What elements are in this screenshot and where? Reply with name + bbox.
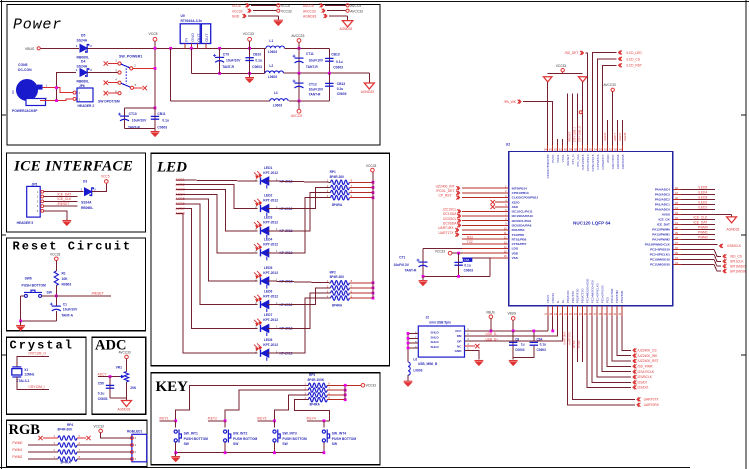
svg-text:CRY12M_I: CRY12M_I <box>572 127 576 142</box>
svg-text:C0603: C0603 <box>337 92 347 96</box>
MCU left pin numbers <box>504 185 507 259</box>
wire /KEY2 row <box>208 420 225 422</box>
svg-text:NUC120 LQFP 64: NUC120 LQFP 64 <box>573 221 611 226</box>
MCU left pin stubs <box>462 188 509 258</box>
svg-text:USB_MINI_B: USB_MINI_B <box>418 362 438 366</box>
svg-text:PC2•SPICLK1: PC2•SPICLK1 <box>650 253 670 257</box>
svg-text:ICE INTERFACE: ICE INTERFACE <box>13 159 133 175</box>
LED LED4 <box>261 249 269 261</box>
switch SW_INT4 <box>323 421 325 428</box>
svg-text:SW: SW <box>233 442 239 446</box>
wire top col5 <box>567 94 569 145</box>
svg-text:PUSH BOTTOM: PUSH BOTTOM <box>332 437 357 441</box>
svg-text:VDD1: VDD1 <box>556 154 560 163</box>
wire key bottom rail <box>176 452 324 454</box>
svg-text:PA14/PWM2: PA14/PWM2 <box>652 238 670 242</box>
svg-text:D4: D4 <box>81 59 85 63</box>
capacitor CT1 <box>422 249 424 277</box>
svg-text:TX2: TX2 <box>467 240 473 244</box>
svg-text:VCC33: VCC33 <box>435 249 446 253</box>
diode D3 <box>85 188 94 196</box>
svg-text:L0603: L0603 <box>413 369 422 373</box>
node stub circle <box>579 111 582 114</box>
MCU top pin stubs <box>548 145 623 152</box>
svg-text:CRY12M_O: CRY12M_O <box>28 351 46 355</box>
svg-text:ICE_DAT: ICE_DAT <box>58 192 72 196</box>
wire node UART0TX <box>572 317 635 400</box>
svg-text:ICE_DAT: ICE_DAT <box>657 223 670 227</box>
svg-text:LED2: LED2 <box>264 193 273 197</box>
svg-text:LED1: LED1 <box>264 166 273 170</box>
svg-text:10uF/10V: 10uF/10V <box>309 88 324 92</box>
svg-text:20K: 20K <box>130 386 137 390</box>
svg-text:AVCC5: AVCC5 <box>291 114 302 118</box>
svg-text:/KEY3: /KEY3 <box>257 417 267 421</box>
svg-text:0.1u: 0.1u <box>464 263 470 267</box>
ground ICE <box>62 221 71 226</box>
svg-text:ICE_CK: ICE_CK <box>659 218 671 222</box>
wire net /LED1 to LED1 <box>176 180 258 181</box>
svg-text:SW_INT4: SW_INT4 <box>332 432 346 436</box>
wire U9 GND drop <box>190 48 192 73</box>
wire LED4 anode to resistor pack <box>268 198 331 253</box>
svg-text:/RESET: /RESET <box>566 154 570 165</box>
svg-text:SW: SW <box>282 442 288 446</box>
svg-text:SW: SW <box>184 442 190 446</box>
svg-text:/KEY4: /KEY4 <box>306 417 316 421</box>
RGB section box <box>7 420 148 466</box>
svg-text:SW_INT3: SW_INT3 <box>282 432 296 436</box>
capacitor C63 <box>458 253 460 276</box>
wire PWM1 row <box>28 451 58 453</box>
wire JP5 pin1 to D3 <box>44 191 84 193</box>
svg-text:10uF/10V: 10uF/10V <box>309 58 324 62</box>
wire node I2S/LRCLK <box>602 317 631 372</box>
wire /RESET ICE <box>44 205 78 207</box>
svg-text:CTS1/PB7: CTS1/PB7 <box>512 242 527 246</box>
wire SW6 row <box>21 295 25 297</box>
svg-text:0.1u: 0.1u <box>255 59 262 63</box>
wire node PWM1 <box>681 233 715 235</box>
svg-text:/LED5: /LED5 <box>698 186 707 190</box>
svg-text:C63: C63 <box>464 258 470 262</box>
svg-text:PC1•SPICLK0: PC1•SPICLK0 <box>595 283 599 303</box>
wire RP3 row3 to key column <box>275 395 309 421</box>
wire reset bottom rail <box>21 296 57 321</box>
svg-text:SW_INT2: SW_INT2 <box>233 432 247 436</box>
wire node PWM0 <box>681 228 715 230</box>
svg-text:CT9: CT9 <box>223 53 229 57</box>
svg-text:PWM0: PWM0 <box>12 441 22 445</box>
svg-text:KPT-2012: KPT-2012 <box>263 171 278 175</box>
svg-text:/SD_PWR: /SD_PWR <box>638 365 654 369</box>
svg-text:TANT-R: TANT-R <box>405 268 417 272</box>
svg-text:CB10: CB10 <box>253 53 262 57</box>
svg-text:CPN0/PC7: CPN0/PC7 <box>601 154 605 169</box>
svg-text:ADC7: ADC7 <box>98 372 107 376</box>
capacitor C8 <box>512 331 514 360</box>
svg-text:C0603: C0603 <box>157 126 167 130</box>
wire LED5 anode to resistor pack <box>268 281 331 283</box>
svg-text:OUT: OUT <box>196 33 201 42</box>
svg-text:AVCC33: AVCC33 <box>350 9 363 13</box>
wire node /LCD_LED <box>593 53 617 146</box>
svg-text:PUSH BOTTOM: PUSH BOTTOM <box>233 437 258 441</box>
wire loop to bottom rail <box>170 48 172 101</box>
svg-text:VSS1: VSS1 <box>561 154 565 162</box>
svg-text:VCC33: VCC33 <box>366 164 377 168</box>
svg-text:CRY12M_O: CRY12M_O <box>577 125 581 142</box>
svg-text:10uF/10V: 10uF/10V <box>226 59 241 63</box>
svg-text:CPO1/PB13: CPO1/PB13 <box>512 191 529 195</box>
svg-text:CT1: CT1 <box>399 255 405 259</box>
svg-text:UART1TX: UART1TX <box>439 231 455 235</box>
ground C8 <box>509 361 518 366</box>
svg-text:AVCC33: AVCC33 <box>119 351 131 355</box>
svg-text:SW: SW <box>332 442 338 446</box>
svg-text:CTS0: CTS0 <box>577 340 581 348</box>
wire D3 to VCC5 <box>92 183 106 191</box>
wire USB DM <box>465 317 558 337</box>
svg-text:CLKO/CPO0/PB12: CLKO/CPO0/PB12 <box>512 196 539 200</box>
svg-text:PA4/ADC4: PA4/ADC4 <box>655 188 670 192</box>
svg-text:PB2/RTS0: PB2/RTS0 <box>576 288 580 303</box>
svg-text:STADC/TM0/PB8: STADC/TM0/PB8 <box>546 154 550 178</box>
capacitor CB10 <box>249 48 251 73</box>
svg-text:PC3•MOSI0•SDO: PC3•MOSI0•SDO <box>586 278 590 303</box>
svg-text:R0603: R0603 <box>62 282 72 286</box>
svg-text:AGND33: AGND33 <box>361 90 374 94</box>
svg-text:PWM1: PWM1 <box>12 448 22 452</box>
wire rail C <box>284 72 369 74</box>
wire net /LED2 to LED2 <box>176 185 258 209</box>
wire CT10 CB11 bottom <box>125 128 156 130</box>
AGND33 arrow adc <box>126 398 128 401</box>
wire CB15 bottom to junction <box>299 100 329 102</box>
svg-text:INT1/PB15: INT1/PB15 <box>581 154 585 169</box>
svg-text:SS24A: SS24A <box>81 200 92 204</box>
KEY section box <box>151 373 380 465</box>
wire LDO to CT1 <box>423 248 462 250</box>
svg-text:CPN1/PC15: CPN1/PC15 <box>591 154 595 171</box>
wire node ICE_CLK <box>681 218 715 220</box>
capacitor C64 <box>533 331 535 341</box>
svg-text:CON5: CON5 <box>18 63 28 67</box>
wire top col6 CRY12M_I <box>572 94 574 145</box>
power arrow left <box>543 77 552 82</box>
wire ICE_CLK <box>44 200 78 202</box>
svg-text:0.1u: 0.1u <box>337 87 344 91</box>
svg-text:VR1: VR1 <box>116 366 123 370</box>
wire bottom col8 stub <box>581 317 583 363</box>
svg-text:/LCD_CS: /LCD_CS <box>626 57 641 61</box>
svg-text:POWERJACK5P: POWERJACK5P <box>12 109 38 113</box>
wire and node /LED4 <box>681 193 715 195</box>
svg-text:SW6: SW6 <box>25 276 32 280</box>
svg-text:VBUS: VBUS <box>546 295 550 303</box>
svg-text:VCC33: VCC33 <box>94 424 105 428</box>
svg-text:/PA_WK: /PA_WK <box>504 100 517 104</box>
svg-text:SPI1CLK: SPI1CLK <box>730 260 744 264</box>
svg-text:PA0/ADC0: PA0/ADC0 <box>655 208 670 212</box>
wire node /SD_PWR <box>607 317 631 367</box>
svg-text:PC5: PC5 <box>605 297 609 303</box>
svg-text:SW_POWER1: SW_POWER1 <box>119 54 142 58</box>
svg-text:AVCC33: AVCC33 <box>303 9 316 13</box>
svg-text:PC3•SPISS10: PC3•SPISS10 <box>650 248 670 252</box>
svg-text:C0603: C0603 <box>252 65 262 69</box>
LED LED3 <box>261 227 269 239</box>
svg-text:AVSS: AVSS <box>662 213 670 217</box>
wire node /UZ2400_CS <box>622 317 631 351</box>
capacitor C50 <box>109 377 111 398</box>
bottom rail E <box>171 100 270 102</box>
svg-text:UART0RX: UART0RX <box>562 331 566 345</box>
svg-text:12MHz: 12MHz <box>24 372 35 376</box>
svg-text:8P4R-300: 8P4R-300 <box>330 275 345 279</box>
svg-text:8P4R-300: 8P4R-300 <box>330 175 345 179</box>
svg-text:RP3: RP3 <box>309 373 315 377</box>
svg-text:KPT-2012: KPT-2012 <box>263 343 278 347</box>
ground USB <box>475 361 484 366</box>
ground key <box>175 453 177 457</box>
wire LED6 anode to resistor pack <box>268 288 331 305</box>
wires RP2 to VCC rail <box>349 282 373 284</box>
node VCC33 key <box>361 384 365 388</box>
svg-text:/LED7: /LED7 <box>618 132 622 141</box>
svg-text:/UZ2400_CS: /UZ2400_CS <box>638 349 658 353</box>
svg-text:KPT-2012: KPT-2012 <box>263 198 278 202</box>
svg-text:LED7: LED7 <box>264 313 273 317</box>
svg-text:RP2: RP2 <box>330 270 336 274</box>
wire VCC33 rail led <box>372 172 374 298</box>
LED LED2 <box>261 205 269 217</box>
svg-text:SPI1MOSI: SPI1MOSI <box>730 269 746 273</box>
wire AVSS to AGND33 <box>681 213 732 215</box>
svg-text:GND: GND <box>232 15 240 19</box>
svg-text:/RESET: /RESET <box>567 131 571 142</box>
wire net /LED6 to LED6 <box>176 204 258 305</box>
svg-text:RGB: RGB <box>9 422 41 438</box>
wire node PWM2 <box>681 238 715 240</box>
svg-text:C1: C1 <box>63 303 67 307</box>
svg-text:I2C0SCL/PA9: I2C0SCL/PA9 <box>512 219 532 223</box>
svg-text:VCC5: VCC5 <box>149 32 158 36</box>
svg-text:PWM1: PWM1 <box>698 231 708 235</box>
wire RP3 row2 to key column <box>225 390 308 421</box>
svg-text:/LED1: /LED1 <box>698 206 707 210</box>
wire D4 anode loop <box>57 73 77 101</box>
svg-text:I2C0SCL: I2C0SCL <box>443 217 457 221</box>
svg-text:C0603: C0603 <box>515 348 525 352</box>
LED section box <box>151 153 390 365</box>
svg-text:U9: U9 <box>181 14 185 18</box>
svg-text:UART0RX: UART0RX <box>644 403 660 407</box>
MCU right pin names <box>645 188 671 267</box>
svg-text:8P4RA: 8P4RA <box>310 402 321 406</box>
wire RP3 row1 to key column <box>176 385 309 421</box>
wire node /UZ2400_RST <box>612 317 631 362</box>
svg-text:PB9/TM1: PB9/TM1 <box>620 290 624 303</box>
svg-text:SHLD: SHLD <box>431 335 440 339</box>
svg-text:TX1/PB5: TX1/PB5 <box>512 233 525 237</box>
svg-text:CPP0/PC6: CPP0/PC6 <box>596 154 600 169</box>
MCU bottom pin numbers <box>544 312 621 316</box>
ground reset <box>20 321 22 326</box>
svg-text:TANT-A: TANT-A <box>61 313 73 317</box>
svg-text:VCC33: VCC33 <box>50 253 61 257</box>
crystal X1 <box>12 367 22 377</box>
svg-text:D+: D+ <box>561 299 565 303</box>
wire and node /LED1 <box>681 208 715 210</box>
svg-text:/KEY2: /KEY2 <box>208 417 218 421</box>
svg-text:8P4R-300: 8P4R-300 <box>58 428 73 432</box>
wire top col7 CRY12M_O <box>577 94 579 145</box>
svg-text:LED4: LED4 <box>264 238 273 242</box>
ADC section box <box>92 337 146 414</box>
svg-text:0.1u: 0.1u <box>336 60 343 64</box>
svg-text:I2C1SCL: I2C1SCL <box>443 208 457 212</box>
svg-text:DM: DM <box>457 334 462 338</box>
svg-text:CP_RST: CP_RST <box>438 194 451 198</box>
svg-text:DC-CON: DC-CON <box>18 68 32 72</box>
svg-text:PB0/RX0: PB0/RX0 <box>566 290 570 303</box>
svg-text:KPT-2012: KPT-2012 <box>263 243 278 247</box>
svg-text:8P4R-100K: 8P4R-100K <box>308 378 325 382</box>
svg-text:SHLD: SHLD <box>431 345 440 349</box>
svg-text:0.1u: 0.1u <box>540 343 546 347</box>
svg-text:CRY12M_I: CRY12M_I <box>29 385 45 389</box>
svg-text:CB13: CB13 <box>337 82 346 86</box>
svg-text:10uF/10V: 10uF/10V <box>63 308 78 312</box>
switch SW_INT3 <box>274 421 276 428</box>
svg-text:VCC: VCC <box>455 329 462 333</box>
wire LED1 anode to resistor pack <box>268 181 331 182</box>
svg-text:XT1_Out: XT1_Out <box>576 154 580 167</box>
svg-text:RT9164A-3.3v: RT9164A-3.3v <box>181 19 203 23</box>
svg-text:/SD_DET: /SD_DET <box>565 51 579 55</box>
switch SW_INT1 <box>175 421 177 428</box>
wire VBUS rail <box>465 330 548 332</box>
svg-text:RX1/PB4: RX1/PB4 <box>512 228 525 232</box>
svg-text:LDO: LDO <box>512 247 519 251</box>
svg-text:L4: L4 <box>274 91 278 95</box>
svg-text:GND: GND <box>190 33 195 42</box>
svg-text:GND: GND <box>455 349 463 353</box>
svg-text:J2: J2 <box>426 315 430 319</box>
svg-text:I2S/DI: I2S/DI <box>638 381 647 385</box>
wire LED8 anode to resistor pack <box>268 298 331 353</box>
Reset Circuit section box <box>7 238 146 331</box>
svg-text:CT10: CT10 <box>129 112 137 116</box>
svg-text:PUSH BOTTOM: PUSH BOTTOM <box>184 437 209 441</box>
wire node I2S/DI <box>592 317 631 383</box>
svg-text:KPT-2012: KPT-2012 <box>263 294 278 298</box>
capacitor CB13 <box>328 48 330 73</box>
svg-text:UZ2400_INT: UZ2400_INT <box>436 184 455 188</box>
svg-text:ICE_DAT: ICE_DAT <box>694 221 708 225</box>
svg-text:PUSH BOTTOM: PUSH BOTTOM <box>22 284 47 288</box>
svg-text:ADC7/PA7: ADC7/PA7 <box>611 154 615 169</box>
wires RP4 to RGBLED1 <box>77 444 132 446</box>
svg-text:AGND33: AGND33 <box>303 15 316 19</box>
svg-text:AVCC5: AVCC5 <box>303 4 314 8</box>
wire top col1 <box>547 82 549 145</box>
wire VDD33 column <box>552 317 554 331</box>
svg-text:LED5: LED5 <box>264 266 273 270</box>
svg-text:PA13/PWM1: PA13/PWM1 <box>652 233 670 237</box>
MCU left pin names <box>512 186 539 260</box>
svg-text:U2: U2 <box>506 143 510 147</box>
svg-text:VBUS: VBUS <box>486 311 495 315</box>
diode D5 <box>80 45 89 53</box>
svg-text:UART0TX: UART0TX <box>567 332 571 345</box>
svg-text:XT1_In: XT1_In <box>571 154 575 164</box>
wire node I2SMCLK <box>681 243 718 245</box>
wire PWM2 row <box>28 458 58 460</box>
wire USB GND <box>465 351 479 360</box>
AGND33 arrow right <box>368 73 370 83</box>
Power section box <box>7 5 380 146</box>
wire net /LED5 to LED5 <box>176 199 258 281</box>
switch SW_INT2 <box>224 421 226 428</box>
svg-text:KEY: KEY <box>156 379 189 395</box>
LED LED7 <box>261 324 269 336</box>
no-connect X32O <box>495 201 509 203</box>
wire node I2S/BCLK <box>597 317 631 378</box>
wire VR1 bottom <box>110 382 127 398</box>
svg-text:PB3/CTS0: PB3/CTS0 <box>581 288 585 303</box>
wire VSS down <box>462 258 490 277</box>
svg-text:RP4: RP4 <box>67 423 73 427</box>
wire crystal top <box>17 356 49 367</box>
svg-text:UART1RX: UART1RX <box>438 226 454 230</box>
svg-text:8P4RA: 8P4RA <box>332 203 343 207</box>
wire top col8 <box>582 82 584 145</box>
wire /KEY3 row <box>258 420 275 422</box>
svg-text:SW_INT1: SW_INT1 <box>184 432 198 436</box>
svg-text:L2: L2 <box>269 64 273 68</box>
wire LED3 anode to resistor pack <box>268 193 331 231</box>
wire VIN5V to D5 <box>41 47 79 49</box>
wire node SPI1CLK <box>681 254 721 261</box>
svg-text:0.1u: 0.1u <box>98 392 105 396</box>
wire AVCC33 to VR1 <box>126 359 128 372</box>
wire node /LCD_CS <box>598 59 617 145</box>
ICE INTERFACE section box <box>7 153 146 232</box>
ground under CB11 <box>154 129 156 132</box>
wire analog ground rail <box>423 275 490 277</box>
svg-text:PA3/ADC3: PA3/ADC3 <box>655 193 670 197</box>
MCU top pin names <box>546 154 625 179</box>
wire VCC33 to RGBLED1 pin4 <box>101 433 132 438</box>
svg-text:X32I: X32I <box>512 205 519 209</box>
svg-text:I2C1SCL/PA11: I2C1SCL/PA11 <box>512 210 533 214</box>
no-connect USB NC <box>465 345 476 347</box>
LED LED1 <box>261 177 269 189</box>
MCU bottom pin stubs <box>548 306 622 317</box>
wire L1-L2 left vertical <box>264 48 266 73</box>
wire crystal bottom <box>17 377 49 389</box>
svg-text:CPP1/PC14: CPP1/PC14 <box>586 154 590 171</box>
svg-text:PD8/TM2: PD8/TM2 <box>615 290 619 303</box>
wire top col15 ADC7 <box>617 120 619 145</box>
wire node SPI1MOSI <box>681 264 721 271</box>
svg-text:VCC33: VCC33 <box>232 9 243 13</box>
wire AVCC33 stem <box>612 92 614 146</box>
wire VBUS column <box>512 320 514 331</box>
svg-text:RB060L: RB060L <box>81 206 93 210</box>
